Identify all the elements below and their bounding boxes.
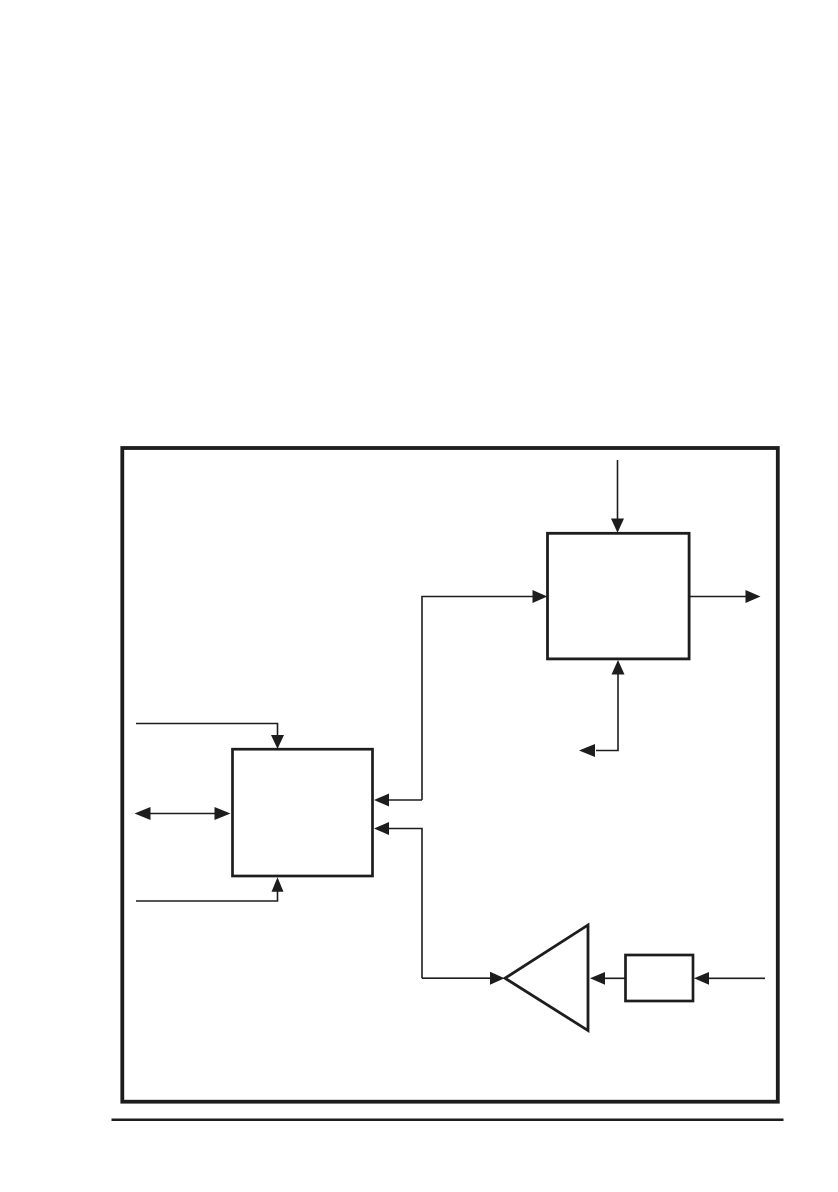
block U1 (top right box) bbox=[548, 533, 690, 659]
arrowhead right end of bus bbox=[215, 807, 231, 820]
buffer amplifier A1 (left-pointing triangle) bbox=[505, 925, 588, 1031]
arrowhead left at end of U1 bottom wire bbox=[579, 744, 595, 757]
wire: into apex of buffer A1 bbox=[422, 977, 491, 979]
footer rule bbox=[112, 1119, 784, 1122]
arrowhead down into U2 top bbox=[271, 735, 284, 749]
wire: into top of U2 bbox=[136, 724, 278, 736]
wire: U3 to buffer A1 bbox=[604, 977, 626, 979]
block U2 (left box) bbox=[233, 749, 373, 876]
arrowhead left end of bus bbox=[135, 807, 151, 820]
figure frame bbox=[122, 448, 778, 1102]
wire: bidirectional bus on left of U2 bbox=[148, 813, 216, 815]
arrowhead left into U3 right bbox=[694, 972, 709, 985]
arrowhead up into U1 bottom bbox=[612, 660, 625, 675]
wire: input into top of U1 bbox=[617, 460, 619, 519]
wire: into right side of U2 (lower), from node down to buffer bbox=[388, 829, 422, 979]
block U3 (small box) bbox=[626, 955, 694, 1001]
arrowhead right into A1 apex bbox=[490, 972, 505, 985]
wire: into bottom of U2 bbox=[136, 892, 278, 902]
wire: into right side of U2 (upper) bbox=[388, 799, 422, 801]
wire: output from right side of U1 bbox=[689, 596, 746, 598]
arrowhead right at U1 output bbox=[746, 590, 761, 603]
arrowhead left into U2 right lower bbox=[374, 822, 389, 835]
arrowhead down into U1 top bbox=[611, 519, 624, 533]
arrowhead left into U2 right upper bbox=[374, 794, 389, 807]
arrowhead right into U1 left bbox=[533, 590, 548, 603]
arrowhead left into A1 right side bbox=[590, 972, 605, 985]
wire: input into right side of U3 bbox=[708, 977, 765, 979]
wire: from node at (422,596) into left side of U1 bbox=[422, 597, 533, 801]
wire: below U1, down then left bbox=[596, 674, 618, 751]
arrowhead up into U2 bottom bbox=[272, 877, 284, 892]
